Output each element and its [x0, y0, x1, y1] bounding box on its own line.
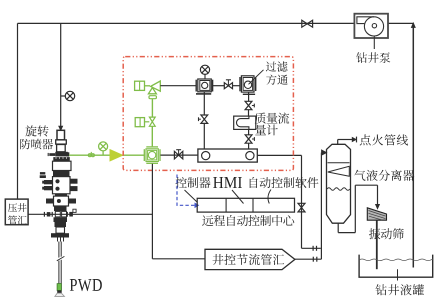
- green actuated valve: [135, 117, 155, 127]
- wire pump discharge top line: [18, 22, 414, 24]
- wire gauge to hand valve: [213, 85, 225, 87]
- annular BOP body: [40, 161, 71, 178]
- valve choke-manifold: [174, 150, 182, 159]
- valve under filter: [245, 101, 254, 109]
- casing head assembly: [51, 211, 69, 241]
- valve on gauge drop: [199, 115, 208, 123]
- pointer tank label: [397, 269, 399, 280]
- label 井控节流管汇: [213, 254, 285, 265]
- pressure control valve body: [196, 79, 212, 92]
- green fitting: [88, 152, 94, 157]
- mass flowmeter 质量流量计: [234, 116, 256, 129]
- valve on discharge line: [302, 20, 313, 27]
- wire green vertical: [151, 99, 153, 118]
- choke manifold banner 井控节流管汇: [205, 249, 295, 269]
- double ram BOP with side outlets: [42, 177, 77, 197]
- green relief angle valve with pilot: [135, 81, 161, 99]
- shale shaker 振动筛: [367, 208, 386, 220]
- wire kill line left vertical: [17, 23, 19, 199]
- drill pipe with break symbol: [56, 242, 65, 294]
- wire separator liquid U-trap: [338, 185, 379, 232]
- kill manifold box 压井管汇: [5, 199, 28, 225]
- wire shaker to tank: [376, 220, 378, 269]
- mud tank 钻井液罐: [359, 255, 433, 278]
- gauge sensor on standpipe: [61, 91, 75, 100]
- MPD choke valve green box: [144, 147, 160, 163]
- buffer manifold with ports: [198, 149, 257, 162]
- remote control center console boxes: [197, 198, 294, 212]
- pump 钻井泵 drilling pump: [354, 14, 388, 49]
- flare line 点火管线: [338, 137, 357, 145]
- blue dashed control link: [177, 175, 198, 208]
- wire standpipe to rotating BOP: [59, 23, 63, 130]
- filter cross 过滤方通: [240, 70, 264, 92]
- gas-liquid separator 气液分离器: [327, 144, 351, 223]
- union ticks drop line: [313, 246, 316, 251]
- wire relief to gauge: [160, 85, 196, 87]
- label 振动筛: [369, 228, 404, 239]
- wire banner to riser: [295, 258, 322, 260]
- label 过滤方通: [266, 61, 288, 84]
- wire manifold to separator drop: [257, 155, 321, 248]
- rotating BOP 旋转防喷器 head stack: [48, 130, 69, 156]
- label 气液分离器: [354, 170, 414, 181]
- wire green flowline from RCD: [69, 154, 144, 156]
- union ticks banner line: [313, 257, 317, 262]
- wire gauge drop: [196, 92, 211, 115]
- flange ticks on wellhead line: [44, 209, 76, 217]
- label 点火管线: [360, 134, 408, 145]
- label 远程自动控制中心: [202, 215, 294, 226]
- MPD control skid boundary red: [123, 57, 293, 171]
- green flow arrow: [110, 150, 123, 161]
- gauge otimes above: [200, 65, 209, 79]
- hand valve with tee handle: [224, 80, 232, 89]
- label 钻井泵: [356, 52, 390, 63]
- pointer lines to control center: [185, 190, 272, 204]
- wire valve to manifold: [203, 123, 205, 149]
- wire wellhead to choke manifold: [152, 164, 205, 259]
- wire riser to separator: [321, 150, 326, 259]
- valve on drop line: [298, 203, 305, 212]
- wire green vertical 2: [151, 126, 153, 146]
- wire kill box to wellhead line: [28, 213, 152, 215]
- PWD tool: [57, 284, 61, 294]
- label 控制器 HMI 自动控制软件: [176, 177, 319, 188]
- drill bit: [55, 293, 65, 296]
- valve under flowmeter: [245, 129, 254, 149]
- bolted flange: [53, 157, 70, 161]
- label 旋转防喷器: [20, 125, 53, 149]
- green pressure sensor: [99, 142, 108, 155]
- wire valve to flowmeter: [248, 110, 250, 116]
- label 质量流量计: [255, 113, 289, 136]
- label PWD: [70, 279, 102, 291]
- wire pump suction right vertical: [412, 23, 416, 267]
- wire filter down: [243, 92, 255, 102]
- single ram BOP and drilling spool: [46, 196, 76, 211]
- label 压井管汇: [8, 203, 27, 224]
- wire to filter: [233, 85, 240, 87]
- wire choke to manifold: [161, 154, 198, 156]
- label 钻井液罐: [376, 284, 425, 295]
